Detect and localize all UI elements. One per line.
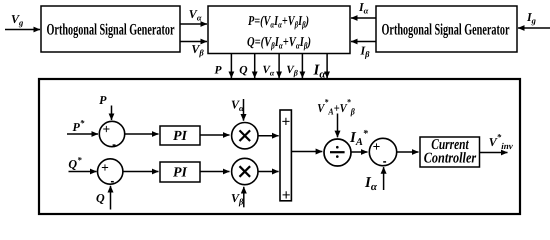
svg-text:P: P <box>215 64 223 76</box>
svg-text:Orthogonal Signal Generator: Orthogonal Signal Generator <box>47 22 175 39</box>
svg-text:Orthogonal Signal Generator: Orthogonal Signal Generator <box>382 22 510 39</box>
svg-text:PI: PI <box>173 166 188 181</box>
svg-text:+: + <box>282 187 291 204</box>
svg-text:Q: Q <box>239 64 247 76</box>
svg-text:P: P <box>99 93 107 107</box>
svg-text:Q: Q <box>96 191 105 205</box>
svg-text:+: + <box>101 160 109 175</box>
svg-text:Controller: Controller <box>424 151 477 167</box>
svg-text:+: + <box>373 139 381 154</box>
svg-text:PI: PI <box>173 129 188 144</box>
svg-text:+: + <box>102 121 110 136</box>
svg-text:+: + <box>281 113 290 130</box>
